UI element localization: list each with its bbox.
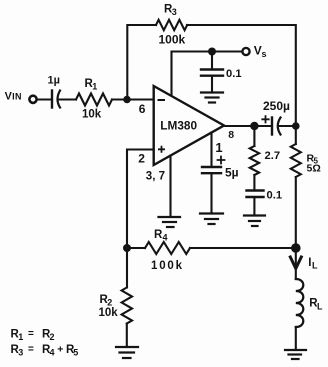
svg-text:s: s xyxy=(262,49,267,59)
ground pins 3,7 xyxy=(159,217,181,227)
wire C1 to R1 xyxy=(59,98,76,100)
wire input terminal to C1 xyxy=(37,98,52,100)
node feedback junction left xyxy=(123,244,131,252)
capacitor 0.1 zobel xyxy=(247,189,283,201)
resistor R2 10k xyxy=(99,288,133,324)
resistor R3 100k xyxy=(156,4,187,47)
capacitor C1 1u xyxy=(48,75,61,108)
svg-text:2: 2 xyxy=(50,332,55,342)
svg-text:=: = xyxy=(28,329,34,340)
svg-text:4: 4 xyxy=(163,233,168,243)
inductor RL xyxy=(296,279,323,327)
wire 250u to right rail xyxy=(280,125,296,127)
capacitor 5u pin1 bypass xyxy=(202,157,239,180)
svg-text:250µ: 250µ xyxy=(263,99,290,113)
svg-text:0.1: 0.1 xyxy=(267,189,283,201)
wire output junction down to 2.7 xyxy=(253,126,255,146)
wire R2 to ground xyxy=(126,324,128,348)
resistor R1 10k xyxy=(76,78,112,121)
current arrow IL xyxy=(290,257,318,271)
node output junction xyxy=(250,122,258,130)
svg-text:3: 3 xyxy=(172,7,177,17)
wire Vs node down to capacitor xyxy=(211,52,213,70)
wire load junction down to RL xyxy=(295,248,297,279)
svg-text:2: 2 xyxy=(107,298,112,308)
wire Vs row xyxy=(172,52,243,97)
wire R4 to right rail xyxy=(190,247,296,249)
svg-text:3: 3 xyxy=(18,348,23,358)
svg-text:L: L xyxy=(317,302,323,312)
node load junction right xyxy=(291,243,301,253)
svg-text:1: 1 xyxy=(92,82,97,92)
svg-text:2.7: 2.7 xyxy=(265,150,281,162)
svg-text:1: 1 xyxy=(18,332,23,342)
svg-text:3, 7: 3, 7 xyxy=(146,170,165,182)
svg-text:100k: 100k xyxy=(159,33,186,47)
svg-text:8: 8 xyxy=(228,129,234,141)
node VIN label xyxy=(5,90,22,102)
svg-text:1µ: 1µ xyxy=(48,75,60,87)
svg-text:+: + xyxy=(57,344,63,356)
wire R5 down to bottom junction xyxy=(295,177,297,248)
resistor 2.7 zobel xyxy=(250,146,280,175)
svg-text:LM380: LM380 xyxy=(160,118,197,132)
resistor R5 5ohm xyxy=(291,126,321,177)
ground R2 xyxy=(116,347,138,358)
wire R3 to right rail, down to output node xyxy=(187,25,296,126)
wire pin 2 to left rail xyxy=(127,150,154,288)
svg-text:2: 2 xyxy=(138,151,145,165)
wire 5u capacitor to ground xyxy=(210,173,212,213)
svg-text:0.1: 0.1 xyxy=(226,68,242,80)
wire pins 3,7 to ground xyxy=(169,156,171,218)
ground 5u bypass xyxy=(200,214,223,225)
equation R1 = R2 xyxy=(11,329,55,343)
svg-text:5µ: 5µ xyxy=(225,165,239,179)
ground supply bypass xyxy=(201,93,223,103)
svg-text:6: 6 xyxy=(139,102,146,116)
wire 2.7 to 0.1 xyxy=(253,175,255,191)
svg-text:4: 4 xyxy=(50,348,55,358)
wire pin 1 to bypass capacitor xyxy=(210,133,212,168)
wire capacitor to ground xyxy=(211,76,213,93)
op-amp U1 LM380 xyxy=(138,86,234,182)
svg-text:10k: 10k xyxy=(99,307,119,319)
svg-text:10k: 10k xyxy=(82,109,102,121)
svg-text:L: L xyxy=(312,260,318,270)
wire RL to ground xyxy=(295,327,297,350)
input terminal xyxy=(29,96,36,103)
equation R3 = R4 + R5 xyxy=(11,344,79,358)
node junction Vs bypass xyxy=(208,48,216,56)
svg-text:=: = xyxy=(28,344,34,355)
resistor R4 100k xyxy=(145,229,190,272)
wire 0.1 to ground xyxy=(253,197,255,216)
svg-text:5Ω: 5Ω xyxy=(307,163,321,175)
terminal Vs xyxy=(242,48,249,55)
wire R1 to op-amp pin 6 xyxy=(112,98,154,100)
svg-text:1: 1 xyxy=(215,140,222,155)
svg-text:5: 5 xyxy=(73,348,78,358)
wire junction up to feedback line xyxy=(127,25,156,100)
ground zobel xyxy=(244,216,265,227)
svg-text:IN: IN xyxy=(12,91,22,101)
capacitor 250u output coupling xyxy=(262,99,290,135)
ground load xyxy=(285,350,306,359)
capacitor 0.1 supply bypass xyxy=(201,68,242,80)
node right rail output junction xyxy=(292,122,300,130)
wire output pin 8 row xyxy=(224,125,272,127)
svg-text:100k: 100k xyxy=(151,260,184,272)
wire R4 row left lead xyxy=(127,247,145,249)
node junction pin6 xyxy=(123,96,131,104)
